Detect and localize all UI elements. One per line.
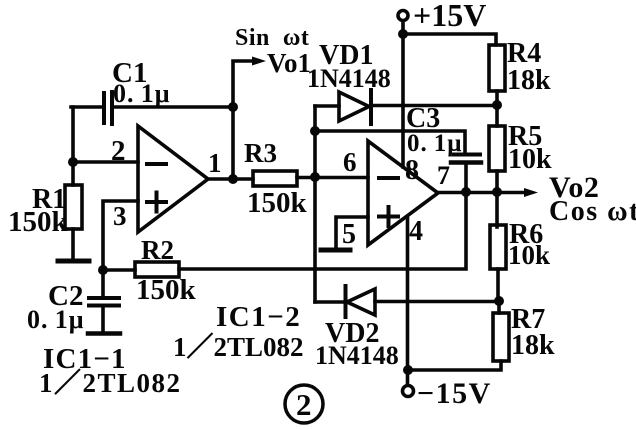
wire VD1 cathode to R4R5: [373, 104, 497, 108]
node -15V junction: [403, 365, 413, 375]
wire vertical VD1/pin6/VD2: [313, 106, 317, 302]
svg-text:1: 1: [208, 148, 222, 178]
svg-text:7: 7: [437, 161, 450, 190]
op-amp U2 plus: [379, 207, 398, 226]
wire output2: [438, 191, 526, 195]
svg-text:R2: R2: [141, 235, 174, 265]
node output2 R5 junction: [492, 187, 502, 197]
svg-text:1／2TL082: 1／2TL082: [173, 332, 304, 362]
node C3 branch junction: [310, 126, 320, 136]
svg-text:0. 1μ: 0. 1μ: [407, 130, 462, 157]
wire node down to output1: [231, 107, 235, 179]
wire +15V to R4: [403, 34, 496, 45]
node R4R5 junction: [492, 100, 502, 110]
op-amp U1 minus: [147, 162, 166, 166]
svg-text:18k: 18k: [507, 65, 551, 96]
wire pin4 to -15V: [406, 217, 410, 385]
wire pin5: [336, 217, 368, 248]
op-amp U2 triangle: [368, 141, 438, 245]
figure number 2 circled: [285, 385, 323, 423]
capacitor C2: [101, 270, 105, 296]
svg-text:−15V: −15V: [417, 377, 492, 410]
wire VD1 anode: [315, 104, 339, 108]
svg-text:1N4148: 1N4148: [315, 341, 399, 370]
node pin3 junction: [98, 265, 108, 275]
wire R3 to pin6: [297, 176, 368, 180]
resistor R5: [489, 126, 505, 171]
svg-text:150k: 150k: [8, 206, 69, 238]
svg-text:0. 1μ: 0. 1μ: [27, 305, 84, 334]
node pin6 junction: [310, 172, 320, 182]
node pin2 junction: [68, 157, 78, 167]
resistor R1: [71, 162, 75, 185]
op-amp U1 triangle: [138, 126, 208, 232]
resistor R4: [489, 45, 505, 91]
wire R2 to output2: [179, 192, 466, 269]
ground R1 bar: [58, 259, 89, 264]
wire C3 branch: [315, 131, 465, 152]
diode VD1: [339, 92, 369, 121]
ground pin5 bar: [321, 248, 350, 253]
svg-text:150k: 150k: [247, 187, 308, 219]
svg-text:R3: R3: [244, 138, 277, 168]
svg-text:4: 4: [409, 216, 423, 247]
wire C1 left horizontal: [71, 105, 101, 109]
svg-text:10k: 10k: [508, 240, 550, 270]
terminal +15V: [398, 11, 408, 21]
node R6R7 junction: [494, 296, 504, 306]
svg-text:10k: 10k: [508, 144, 552, 175]
svg-text:+15V: +15V: [413, 0, 486, 33]
svg-text:6: 6: [343, 147, 357, 177]
arrow Vo1: [252, 57, 266, 66]
resistor R6: [495, 192, 499, 227]
svg-text:150k: 150k: [136, 274, 197, 306]
terminal -15V: [403, 386, 414, 397]
svg-text:Cos ωt: Cos ωt: [549, 196, 636, 227]
node +15V junction: [398, 29, 408, 39]
node output2 C3 junction: [461, 187, 471, 197]
wire VD2 anode to R6R7: [375, 300, 499, 304]
svg-text:Vo1: Vo1: [267, 48, 311, 78]
wire VD2 corner: [315, 300, 344, 304]
svg-text:0. 1μ: 0. 1μ: [113, 79, 170, 108]
capacitor C3: [454, 153, 480, 157]
svg-text:18k: 18k: [511, 330, 555, 361]
svg-text:2: 2: [111, 135, 126, 167]
wire C1 left corner vertical: [71, 107, 75, 162]
svg-text:IC1−2: IC1−2: [216, 301, 301, 333]
resistor R2: [103, 268, 135, 272]
svg-text:3: 3: [113, 201, 127, 231]
svg-text:1N4148: 1N4148: [307, 64, 391, 93]
capacitor C1: [102, 93, 106, 123]
svg-text:5: 5: [342, 219, 356, 250]
resistor R7: [497, 301, 501, 313]
node C1-right junction: [228, 102, 238, 112]
wire C1 right to node: [114, 105, 233, 109]
node output1 junction: [228, 174, 238, 184]
wire output1: [208, 177, 253, 181]
svg-text:8: 8: [405, 155, 419, 186]
wire pin3: [103, 201, 138, 270]
arrow Vo2: [524, 188, 538, 197]
resistor R3: [253, 171, 297, 186]
wire vertical node to Vo1 corner: [233, 61, 254, 107]
wire pin2: [73, 160, 138, 164]
diode VD2: [344, 286, 348, 317]
wire +15V rail / pin8: [401, 21, 405, 167]
svg-text:2: 2: [296, 387, 312, 422]
svg-text:1／2TL082: 1／2TL082: [39, 368, 182, 398]
op-amp U1 plus: [147, 193, 166, 212]
op-amp U2 minus: [379, 176, 398, 180]
